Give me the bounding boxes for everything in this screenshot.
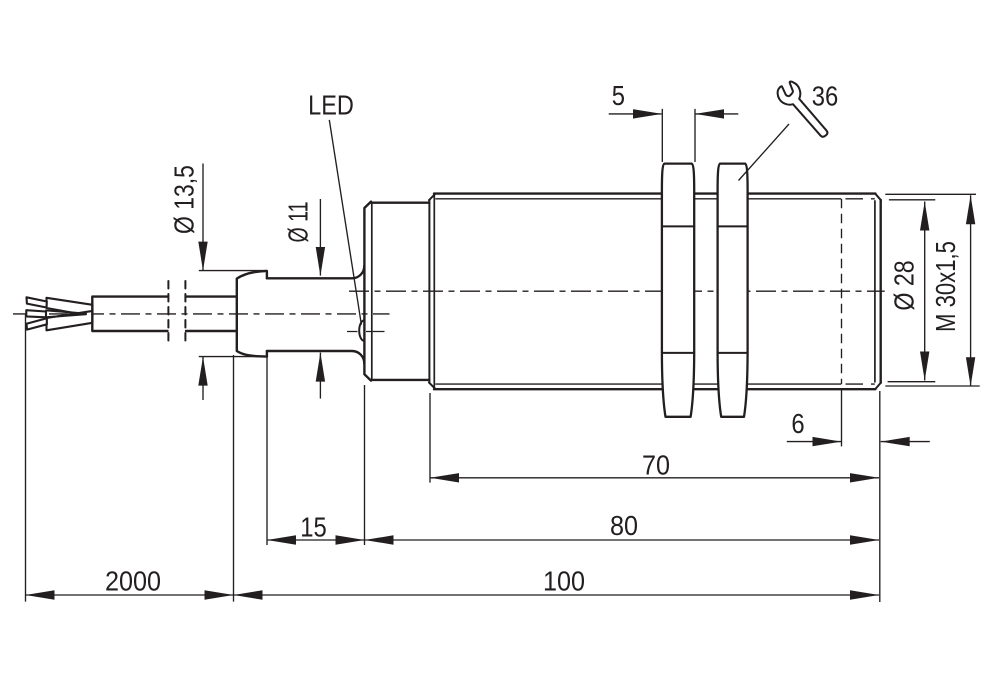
dim 6 line left xyxy=(787,441,841,443)
dim 5 line left xyxy=(609,113,662,115)
strain relief bell xyxy=(237,271,267,357)
body right chamfers xyxy=(875,194,881,389)
thread hidden dashes top right xyxy=(846,198,875,200)
cable sheath after break xyxy=(186,297,236,331)
cable tube top xyxy=(267,266,364,278)
svg-text:Ø 28: Ø 28 xyxy=(890,260,920,310)
centerline cable axis xyxy=(13,313,390,315)
cable break lines xyxy=(167,281,169,346)
dim 15/80 extension lines xyxy=(267,355,365,545)
dim 6 line right xyxy=(881,441,930,443)
dim M30 extension top xyxy=(885,193,976,195)
dim D28 line xyxy=(924,202,926,381)
thread hidden dashes bottom right xyxy=(846,383,875,385)
svg-text:15: 15 xyxy=(300,511,326,543)
LED dome xyxy=(359,320,364,340)
LED axis line xyxy=(347,331,385,333)
thread runout dashed line xyxy=(841,199,843,384)
dim D11 line bottom xyxy=(319,353,321,399)
centerline body axis xyxy=(349,290,885,292)
wrench leader xyxy=(739,124,790,181)
cable sheath xyxy=(92,297,167,331)
LED leader xyxy=(329,120,361,325)
dim D13.5 line bottom xyxy=(202,357,204,400)
wrench icon xyxy=(774,78,835,143)
svg-text:80: 80 xyxy=(610,510,638,542)
svg-text:6: 6 xyxy=(791,407,804,439)
svg-text:2000: 2000 xyxy=(105,565,161,597)
cable tube bottom xyxy=(267,351,364,364)
collar chamfer ring xyxy=(371,202,373,381)
svg-text:5: 5 xyxy=(612,79,625,111)
dim 2000/100 extension lines xyxy=(26,315,234,602)
body chamfer ring xyxy=(433,194,435,388)
body step face xyxy=(428,200,430,383)
dim 70 line xyxy=(430,477,879,479)
svg-text:M 30x1,5: M 30x1,5 xyxy=(931,241,962,332)
svg-text:Ø 11: Ø 11 xyxy=(283,201,314,242)
wire converge lines xyxy=(46,310,86,317)
dim M30 extension bottom xyxy=(885,385,979,387)
thread minor line top xyxy=(435,198,841,200)
dim D13.5 extension bottom xyxy=(199,356,267,358)
dim 15 and 80 line xyxy=(267,539,879,541)
collar bottom edge xyxy=(371,379,430,381)
dim D13.5 line top xyxy=(202,164,204,271)
svg-text:LED: LED xyxy=(308,91,354,121)
dim 6 extension right / chain extension xyxy=(879,391,881,602)
collar rear face xyxy=(364,202,371,381)
nut N2 xyxy=(718,164,748,417)
cable wires (frayed end) xyxy=(26,297,92,330)
svg-text:Ø 13,5: Ø 13,5 xyxy=(169,165,200,234)
dim 6 extension left xyxy=(841,390,843,446)
body left chamfers xyxy=(429,194,435,389)
svg-text:70: 70 xyxy=(642,449,670,481)
body top outline xyxy=(434,192,875,194)
dim 2000 and 100 line xyxy=(26,594,880,596)
dim 5 extension lines xyxy=(662,109,695,162)
dim 5 line right xyxy=(696,113,739,115)
svg-text:36: 36 xyxy=(812,80,838,112)
dim M30 line xyxy=(970,195,972,386)
dim 70 extension left xyxy=(429,393,431,483)
body bottom outline xyxy=(434,388,875,390)
svg-text:100: 100 xyxy=(543,565,585,597)
thread minor line bottom xyxy=(435,383,841,385)
dim D28 extension bottom xyxy=(888,381,936,383)
dim D28 extension top xyxy=(889,199,935,201)
collar top edge xyxy=(371,201,430,203)
body end face xyxy=(880,200,882,383)
dim D13.5 extension top xyxy=(199,270,267,272)
nut N1 xyxy=(662,164,694,417)
end chamfer ring xyxy=(874,200,876,382)
dim D11 line top xyxy=(319,199,321,276)
